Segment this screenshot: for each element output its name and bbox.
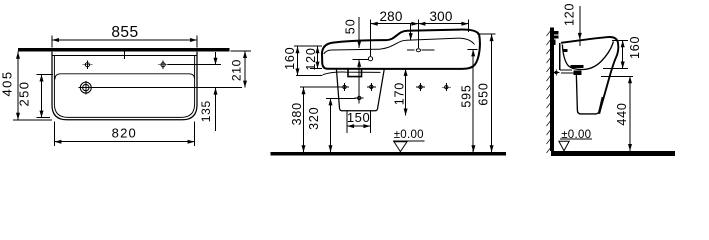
siphon shroud (side view) xyxy=(576,73,602,114)
fixing hole 1 (front view) xyxy=(343,85,346,88)
wall line (side view) xyxy=(550,27,554,151)
svg-text:50: 50 xyxy=(343,18,357,34)
svg-text:300: 300 xyxy=(429,9,452,24)
svg-text:280: 280 xyxy=(379,9,402,24)
basin inner edge line (front view) xyxy=(324,38,475,54)
dimension 595 (front view right) xyxy=(468,48,478,50)
dimension 405 (plan left) xyxy=(17,52,19,120)
dimension 170 (front view) xyxy=(405,69,407,116)
dimension 440 (side view) xyxy=(601,75,633,77)
dimension 50 (front view) xyxy=(358,17,360,48)
basin underside (side view) xyxy=(560,69,572,71)
siphon cover trapezoid (front view) xyxy=(336,69,384,111)
tap hole mark (side view) xyxy=(579,37,581,46)
svg-text:440: 440 xyxy=(615,102,629,125)
svg-text:650: 650 xyxy=(476,82,490,105)
svg-text:320: 320 xyxy=(307,107,321,130)
svg-text:170: 170 xyxy=(393,82,407,105)
drain section (side view) xyxy=(571,65,584,68)
svg-text:160: 160 xyxy=(628,36,642,59)
basin outer rim outline (plan) xyxy=(52,52,197,120)
svg-text:405: 405 xyxy=(0,71,15,97)
svg-text:380: 380 xyxy=(290,102,304,125)
dimension 250 (plan left) xyxy=(41,75,43,118)
dimension 160 (front view left) xyxy=(294,45,322,47)
svg-text:160: 160 xyxy=(283,47,297,70)
svg-text:250: 250 xyxy=(17,81,32,107)
svg-text:210: 210 xyxy=(230,59,244,81)
basin inner deck outline (plan) xyxy=(54,55,194,117)
floor line (side view) xyxy=(551,151,675,156)
svg-text:120: 120 xyxy=(304,47,318,70)
dimension 150 (front view) xyxy=(346,111,348,133)
svg-text:820: 820 xyxy=(112,125,137,140)
svg-text:150: 150 xyxy=(347,110,371,125)
mounting bracket (side view) xyxy=(554,31,559,34)
dimension 120 (side view) xyxy=(579,6,581,35)
wall line (plan view, top) xyxy=(18,48,230,52)
svg-text:855: 855 xyxy=(111,24,138,41)
faucet hole right (plan) xyxy=(161,63,165,67)
wall hatching (side view) xyxy=(547,31,551,36)
fixing hole 3 (front view) xyxy=(419,85,422,88)
faucet hole left (plan) xyxy=(85,63,89,67)
svg-text:120: 120 xyxy=(562,3,576,26)
svg-text:±0.00: ±0.00 xyxy=(394,129,424,141)
drain hole lower (front view) xyxy=(358,96,361,99)
basin body outline (side view) xyxy=(561,37,618,114)
basin back edge (side view) xyxy=(559,43,561,70)
dimension 300 (front view top) xyxy=(417,20,419,49)
bracket hook (side view) xyxy=(562,49,567,52)
basin body outline (front view) xyxy=(322,30,480,69)
dimension 210 (plan right) xyxy=(231,50,252,52)
svg-text:595: 595 xyxy=(459,84,473,107)
centerline tick (plan top center) xyxy=(124,51,126,59)
tap hole 2 (front view) xyxy=(416,49,420,52)
svg-text:135: 135 xyxy=(199,100,213,122)
drain flange (front view) xyxy=(348,69,362,77)
fixing hole 4 (front view) xyxy=(445,86,448,89)
dimension 820 (plan bottom) xyxy=(53,122,55,147)
dimension 380 (front view) xyxy=(300,86,341,88)
faucet centerline extension (plan) xyxy=(168,64,221,66)
dimension 280 (front view top) xyxy=(370,20,372,57)
floor line (front view) xyxy=(270,152,506,155)
drain centerline extension (plan) xyxy=(93,87,242,89)
drain hole (plan) xyxy=(80,82,91,93)
dimension 855 (plan top) xyxy=(51,36,53,48)
dimension 160 (side view) xyxy=(612,39,628,41)
inner bowl line (side view) xyxy=(562,41,613,69)
drain centerline (front view) xyxy=(358,59,360,103)
dimension 135 (plan right) xyxy=(215,52,217,65)
tap hole 1 (front view) xyxy=(368,57,372,61)
bowl top edge (plan) xyxy=(55,74,195,80)
fixing hole 2 (front view) xyxy=(370,85,373,88)
dimension 320 (front view) xyxy=(326,97,356,99)
bowl underside bulge line (front view) xyxy=(323,72,381,75)
dimension 120 (front view left) xyxy=(310,68,322,70)
dimension 650 (front view right) xyxy=(477,33,496,35)
fixing hole cross (side view) xyxy=(555,71,557,73)
